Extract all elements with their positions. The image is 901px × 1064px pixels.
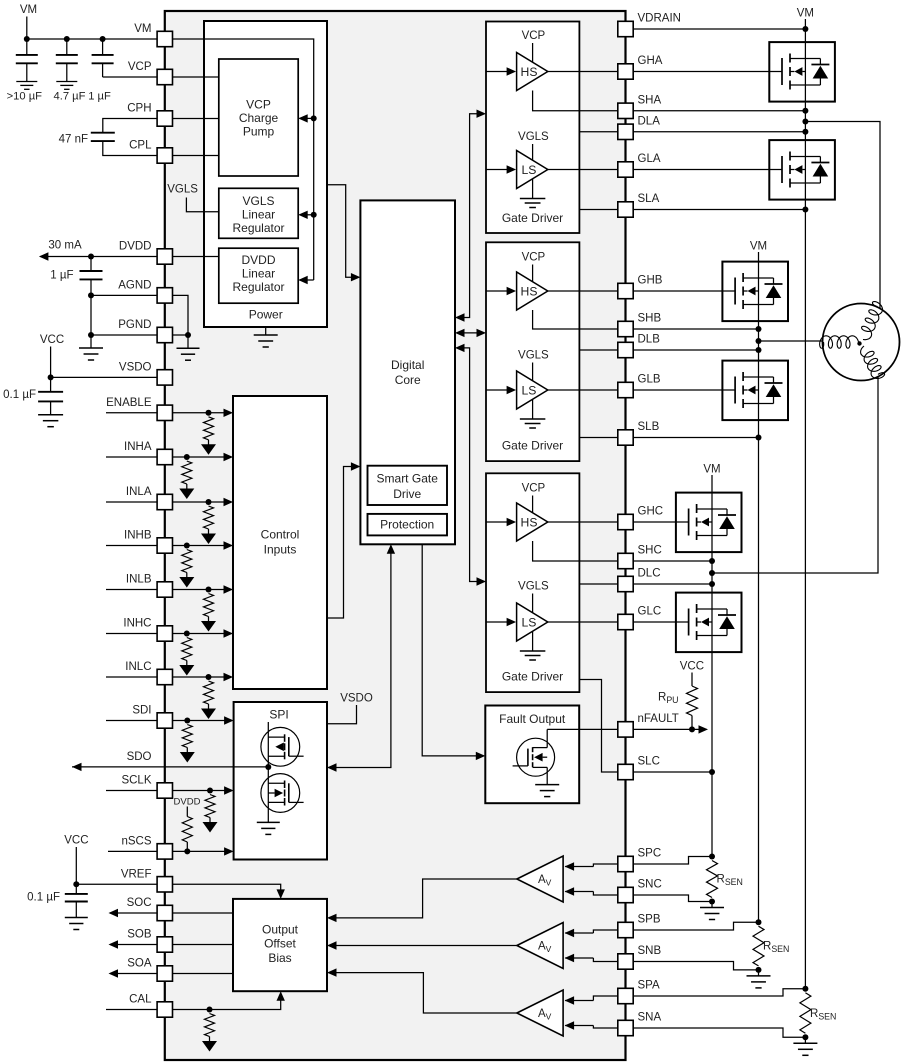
svg-text:Offset: Offset xyxy=(264,937,296,951)
svg-text:AGND: AGND xyxy=(118,279,151,291)
svg-text:Regulator: Regulator xyxy=(232,221,284,235)
svg-text:47 nF: 47 nF xyxy=(59,134,88,146)
svg-text:ENABLE: ENABLE xyxy=(106,397,152,409)
svg-text:VGLS: VGLS xyxy=(242,194,274,208)
svg-text:Gate Driver: Gate Driver xyxy=(502,211,563,225)
svg-text:SDO: SDO xyxy=(127,751,152,763)
svg-text:CPH: CPH xyxy=(127,103,151,115)
svg-text:VCP: VCP xyxy=(128,61,152,73)
svg-text:SHC: SHC xyxy=(638,545,662,557)
svg-text:GHC: GHC xyxy=(638,506,664,518)
svg-text:VM: VM xyxy=(703,464,720,476)
svg-text:nFAULT: nFAULT xyxy=(638,713,679,725)
svg-text:1 µF: 1 µF xyxy=(50,270,73,282)
svg-text:Linear: Linear xyxy=(242,207,275,221)
svg-text:VDRAIN: VDRAIN xyxy=(638,13,681,25)
svg-text:30 mA: 30 mA xyxy=(48,240,82,252)
svg-text:LS: LS xyxy=(522,615,537,629)
svg-text:VCP: VCP xyxy=(522,483,546,495)
svg-text:SHA: SHA xyxy=(638,94,662,106)
svg-text:Power: Power xyxy=(249,308,283,322)
svg-text:SNA: SNA xyxy=(638,1012,662,1024)
svg-text:VCP: VCP xyxy=(522,252,546,264)
svg-text:VREF: VREF xyxy=(121,868,152,880)
svg-text:Drive: Drive xyxy=(393,487,421,501)
svg-text:DVDD: DVDD xyxy=(174,797,201,808)
svg-text:INLA: INLA xyxy=(126,486,152,498)
svg-text:HS: HS xyxy=(521,284,538,298)
svg-text:4.7 µF: 4.7 µF xyxy=(54,91,86,103)
svg-text:SNC: SNC xyxy=(638,879,662,891)
svg-text:SOC: SOC xyxy=(127,897,152,909)
svg-text:SLB: SLB xyxy=(638,421,660,433)
svg-text:INHC: INHC xyxy=(123,618,151,630)
svg-text:GHB: GHB xyxy=(638,275,663,287)
svg-text:CPL: CPL xyxy=(129,140,152,152)
svg-text:HS: HS xyxy=(521,65,538,79)
svg-text:VM: VM xyxy=(750,241,767,253)
svg-text:VGLS: VGLS xyxy=(518,581,549,593)
svg-text:VCP: VCP xyxy=(246,98,271,112)
svg-text:SPC: SPC xyxy=(638,848,662,860)
svg-text:INHB: INHB xyxy=(124,530,152,542)
svg-text:SLA: SLA xyxy=(638,193,660,205)
svg-text:Output: Output xyxy=(262,922,299,936)
svg-text:SPB: SPB xyxy=(638,914,661,926)
svg-text:Inputs: Inputs xyxy=(264,543,297,557)
svg-text:DVDD: DVDD xyxy=(241,253,275,267)
svg-text:0.1 µF: 0.1 µF xyxy=(27,892,60,904)
svg-text:VM: VM xyxy=(134,23,151,35)
svg-text:Core: Core xyxy=(395,373,421,387)
svg-text:VCC: VCC xyxy=(680,661,704,673)
svg-text:SOA: SOA xyxy=(127,958,152,970)
svg-text:VSDO: VSDO xyxy=(119,361,152,373)
svg-text:Bias: Bias xyxy=(268,951,291,965)
svg-text:VGLS: VGLS xyxy=(518,131,549,143)
svg-text:LS: LS xyxy=(522,383,537,397)
svg-text:0.1 µF: 0.1 µF xyxy=(3,389,36,401)
svg-text:SLC: SLC xyxy=(638,756,660,768)
svg-text:Protection: Protection xyxy=(380,517,434,531)
svg-text:VGLS: VGLS xyxy=(167,184,198,196)
svg-text:SCLK: SCLK xyxy=(121,775,151,787)
svg-text:>10 µF: >10 µF xyxy=(7,91,43,103)
svg-text:INHA: INHA xyxy=(124,441,152,453)
svg-text:Fault Output: Fault Output xyxy=(499,712,566,726)
svg-text:DLB: DLB xyxy=(638,334,661,346)
svg-text:SPI: SPI xyxy=(269,708,288,722)
svg-text:HS: HS xyxy=(521,515,538,529)
svg-text:nSCS: nSCS xyxy=(121,835,151,847)
svg-text:SHB: SHB xyxy=(638,313,662,325)
svg-text:Charge: Charge xyxy=(239,111,279,125)
svg-text:SDI: SDI xyxy=(132,705,151,717)
svg-text:GLC: GLC xyxy=(638,606,662,618)
svg-text:1 µF: 1 µF xyxy=(88,91,111,103)
svg-text:INLB: INLB xyxy=(126,574,152,586)
svg-text:VSDO: VSDO xyxy=(340,693,373,705)
svg-text:PGND: PGND xyxy=(118,319,151,331)
svg-text:SPA: SPA xyxy=(638,980,660,992)
svg-text:Gate Driver: Gate Driver xyxy=(502,439,563,453)
svg-text:INLC: INLC xyxy=(125,661,151,673)
svg-text:GLB: GLB xyxy=(638,374,661,386)
svg-text:GLA: GLA xyxy=(638,153,661,165)
svg-text:VM: VM xyxy=(20,4,37,16)
svg-text:SNB: SNB xyxy=(638,945,662,957)
svg-text:DLA: DLA xyxy=(638,115,661,127)
svg-text:DLC: DLC xyxy=(638,568,661,580)
svg-text:VCC: VCC xyxy=(64,835,88,847)
svg-text:SOB: SOB xyxy=(127,929,152,941)
svg-text:VM: VM xyxy=(797,8,814,20)
svg-text:VGLS: VGLS xyxy=(518,350,549,362)
svg-text:Digital: Digital xyxy=(391,358,424,372)
svg-text:CAL: CAL xyxy=(129,994,152,1006)
svg-text:LS: LS xyxy=(522,163,537,177)
svg-text:VCC: VCC xyxy=(40,334,64,346)
svg-text:DVDD: DVDD xyxy=(119,241,152,253)
svg-text:GHA: GHA xyxy=(638,55,663,67)
svg-text:Pump: Pump xyxy=(243,125,275,139)
svg-text:Control: Control xyxy=(261,527,300,541)
svg-text:Linear: Linear xyxy=(242,267,275,281)
svg-text:Gate Driver: Gate Driver xyxy=(502,670,563,684)
svg-text:Regulator: Regulator xyxy=(232,280,284,294)
svg-text:Smart Gate: Smart Gate xyxy=(377,472,439,486)
svg-text:VCP: VCP xyxy=(522,30,546,42)
